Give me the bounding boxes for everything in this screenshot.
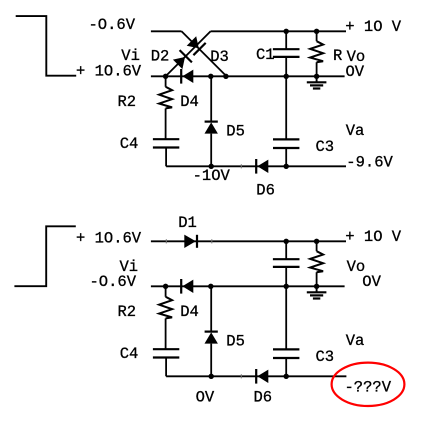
svg-text:C4: C4 (120, 135, 139, 153)
wire: C1 top lead (285, 31, 287, 49)
red highlight ellipse around -???V (332, 363, 405, 406)
svg-text:D5: D5 (226, 333, 245, 351)
wire: R2 to C4 (bottom) (165, 318, 167, 349)
capacitor C1 (273, 49, 300, 57)
svg-text:C1: C1 (256, 46, 275, 64)
wire: R2 to C4 (top) (165, 108, 167, 139)
svg-text:-O.6V: -O.6V (90, 273, 137, 291)
node R/rail (top) (314, 29, 319, 34)
wire: -0.6V line to diagonal bend (top) (151, 30, 182, 32)
svg-text:D5: D5 (226, 123, 245, 141)
svg-text:R: R (333, 47, 342, 65)
capacitor C3 (bottom) (273, 349, 299, 358)
resistor R2 (bottom) (159, 297, 172, 319)
wire: top rail (bottom circuit) (151, 240, 346, 242)
svg-text:C3: C3 (316, 138, 335, 156)
wire: C1 bottom lead (285, 57, 287, 76)
svg-text:+ 1O.6V: + 1O.6V (76, 230, 142, 248)
node 0V/R/gnd (bottom) (314, 284, 319, 289)
svg-text:Vo: Vo (347, 258, 366, 276)
node Va/D5 (top) (209, 164, 214, 169)
tick mark on bottom-circuit rail at R2 column (165, 239, 167, 243)
node cap/rail (bottom) (284, 239, 289, 244)
node C1/rail (top) (284, 29, 289, 34)
svg-text:-1OV: -1OV (193, 167, 231, 185)
svg-text:-O.6V: -O.6V (89, 16, 136, 34)
svg-text:D4: D4 (180, 93, 199, 111)
node Vi/D3 (top) (223, 74, 228, 79)
resistor R (310, 41, 323, 62)
node Va/C3 (top) (284, 164, 289, 169)
svg-text:+ 1O.6V: + 1O.6V (76, 62, 142, 80)
node 0V/R/gnd (top) (314, 74, 319, 79)
tick mark on bottom-circuit rail at D5 column (211, 239, 213, 243)
wire: C3 bottom lead (top) (285, 148, 287, 166)
wire: R bottom lead (bottom circuit) (316, 272, 318, 286)
svg-text:R2: R2 (118, 93, 137, 111)
wire: Va bottom wire (bottom) (166, 375, 346, 377)
capacitor C4 (bottom) (153, 349, 179, 357)
diode D3 (187, 36, 206, 55)
wire: C3 top lead (top) (285, 76, 287, 139)
input waveform (top circuit, step down) (16, 16, 76, 76)
wire: R top lead (bottom circuit) (316, 241, 318, 251)
svg-text:D1: D1 (178, 214, 197, 232)
svg-text:+ 1O V: + 1O V (345, 228, 402, 246)
wire: capacitor top lead (bottom circuit) (285, 241, 287, 259)
node Vi/D5 (top) (208, 74, 213, 79)
diode D1 (184, 235, 197, 248)
node Va/C3 (bottom) (284, 374, 289, 379)
wire: D5 bottom lead (top) (210, 134, 212, 167)
wire: diagonal B (D2 branch, top) (166, 31, 211, 76)
diode D4 (top) (181, 69, 193, 84)
svg-text:R2: R2 (118, 303, 137, 321)
wire: diagonal A (D3 branch, top) (182, 31, 227, 76)
wire: capacitor bottom lead (bottom circuit) (285, 267, 287, 286)
node 0V/C1/C3 (top) (284, 74, 289, 79)
diode D6 (bottom) (256, 369, 268, 384)
tick mark on top-circuit Va wire (240, 164, 242, 168)
svg-text:D4: D4 (180, 303, 199, 321)
svg-text:D6: D6 (256, 182, 275, 200)
wire: R2 top lead (bottom) (165, 286, 167, 297)
wire: Vi/0V line (top) (151, 75, 345, 77)
wire: Va bottom wire (top) (166, 165, 346, 167)
svg-text:C3: C3 (316, 348, 335, 366)
wire: +10V rail (top) (211, 30, 346, 32)
wire: C4 bottom lead (top) (165, 148, 167, 167)
diode D4 (bottom) (181, 279, 193, 294)
ground symbol (bottom) (307, 286, 327, 298)
svg-text:+ 1O V: + 1O V (345, 18, 402, 36)
diode D5 (bottom) (205, 332, 218, 344)
resistor R2 (top) (159, 87, 172, 109)
node Va/D5 (bottom) (209, 374, 214, 379)
wire: C4 bottom lead (bottom) (165, 358, 167, 377)
svg-text:OV: OV (196, 389, 215, 407)
diode D6 (top) (256, 159, 268, 174)
input waveform (bottom circuit, step up) (14, 226, 75, 286)
wire: R bottom lead (316, 62, 318, 76)
wire: R2 top lead (top) (165, 76, 167, 87)
resistor R (bottom circuit, unlabeled) (310, 251, 323, 272)
svg-text:C4: C4 (120, 345, 139, 363)
diode D5 (top) (205, 122, 218, 134)
node Vi/R2 (bottom) (163, 284, 168, 289)
wire: Vi/0V line (bottom circuit) (151, 285, 345, 287)
wire: D5 top lead (bottom) (210, 286, 212, 331)
tick mark on bottom-circuit Va wire (240, 374, 242, 378)
capacitor C3 (top) (273, 139, 299, 148)
svg-text:-???V: -???V (345, 378, 392, 396)
capacitor (C1 of bottom circuit, unlabeled) (273, 259, 300, 267)
ground symbol (top) (307, 76, 327, 88)
svg-text:D3: D3 (210, 48, 229, 66)
diode D2 (173, 50, 192, 69)
svg-text:Va: Va (346, 332, 365, 350)
svg-text:D2: D2 (151, 48, 170, 66)
svg-text:D6: D6 (254, 389, 273, 407)
node Vi/D5 (bottom) (208, 284, 213, 289)
wire: C3 top lead (bottom) (285, 286, 287, 349)
node Vi/R2/D2 (top) (163, 74, 168, 79)
capacitor C4 (top) (153, 139, 179, 147)
node 0V/cap/C3 (bottom) (284, 284, 289, 289)
wire: D5 bottom lead (bottom) (210, 344, 212, 377)
svg-text:-9.6V: -9.6V (346, 153, 393, 171)
wire: R top lead (316, 31, 318, 41)
wire: D5 top lead (top) (210, 76, 212, 121)
svg-text:Va: Va (346, 122, 365, 140)
wire: C3 bottom lead (bottom) (285, 358, 287, 376)
node R/rail (bottom) (314, 239, 319, 244)
svg-text:Vo: Vo (347, 48, 366, 66)
